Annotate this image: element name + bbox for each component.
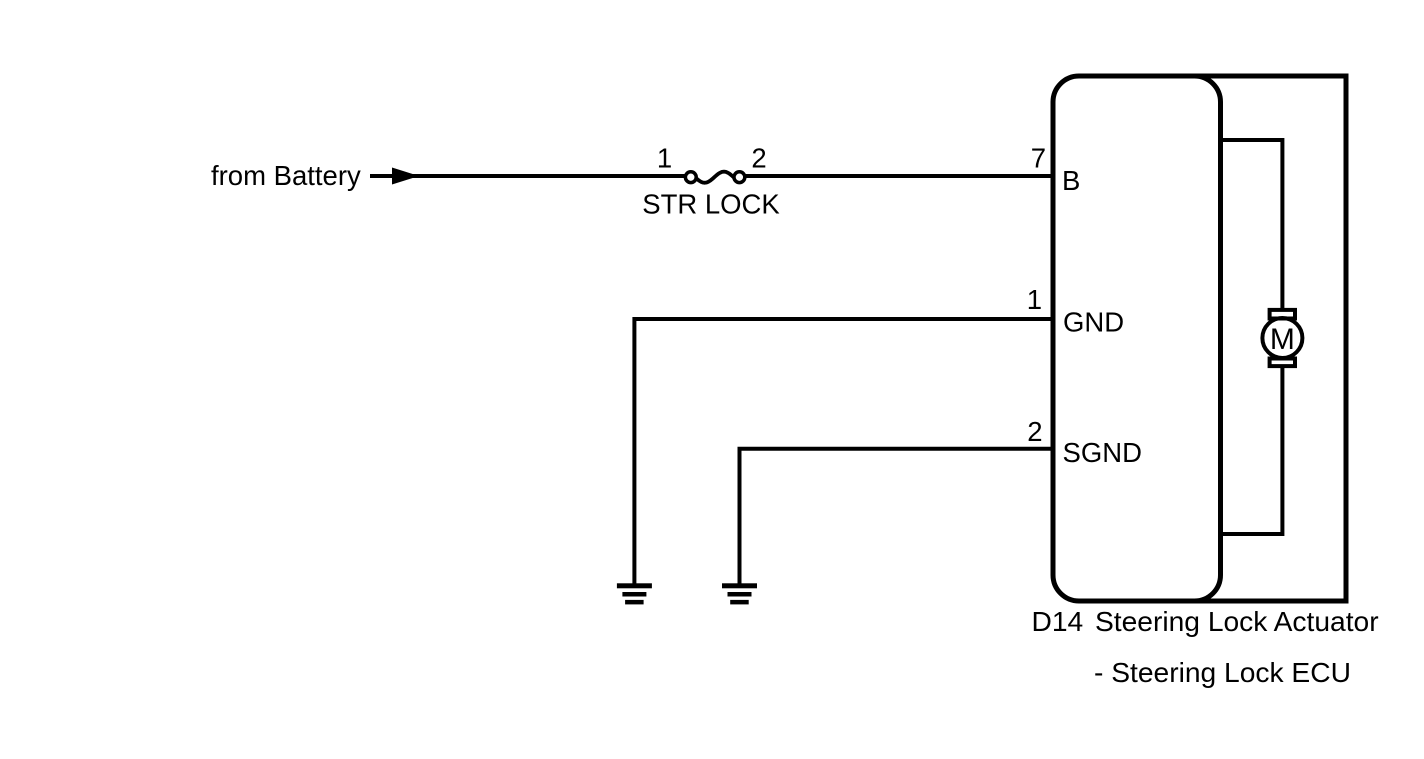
wire: GND pin 1 to ground	[634, 319, 1053, 584]
motor M1 body circle	[1262, 318, 1302, 358]
svg-text:M: M	[1270, 323, 1295, 356]
motor M1 bottom brush cap	[1270, 359, 1295, 367]
svg-text:2: 2	[1027, 416, 1042, 447]
arrowhead on battery feed	[392, 168, 419, 185]
outer box: steering lock actuator enclosure	[1190, 76, 1346, 601]
svg-text:1: 1	[1027, 284, 1042, 315]
wire: SGND pin 2 to ground	[740, 449, 1054, 584]
fuse STR LOCK wavy element	[695, 172, 734, 183]
svg-text:2: 2	[751, 143, 766, 174]
svg-text:from Battery: from Battery	[211, 160, 361, 191]
svg-text:GND: GND	[1063, 307, 1124, 338]
svg-text:- Steering Lock ECU: - Steering Lock ECU	[1094, 656, 1351, 688]
ground symbol (GND)	[617, 583, 652, 604]
svg-text:STR LOCK: STR LOCK	[642, 189, 780, 220]
svg-text:SGND: SGND	[1063, 437, 1142, 468]
wire: motor bottom lead	[1221, 367, 1283, 534]
svg-text:D14: D14	[1032, 605, 1084, 637]
wire: motor top lead	[1221, 140, 1283, 309]
fuse terminal circle 1	[685, 172, 696, 183]
svg-text:1: 1	[657, 143, 672, 174]
connector D14 rounded body	[1053, 76, 1221, 601]
svg-text:B: B	[1062, 165, 1080, 196]
svg-text:Steering Lock Actuator: Steering Lock Actuator	[1095, 605, 1379, 637]
fuse terminal circle 2	[734, 172, 745, 183]
wire: battery feed to fuse pin 1	[370, 174, 685, 178]
wire: fuse pin 2 to connector pin 7 (B)	[745, 174, 1054, 178]
ground symbol (SGND)	[722, 583, 757, 604]
svg-text:7: 7	[1031, 143, 1046, 174]
motor M1 top brush cap	[1270, 310, 1295, 319]
